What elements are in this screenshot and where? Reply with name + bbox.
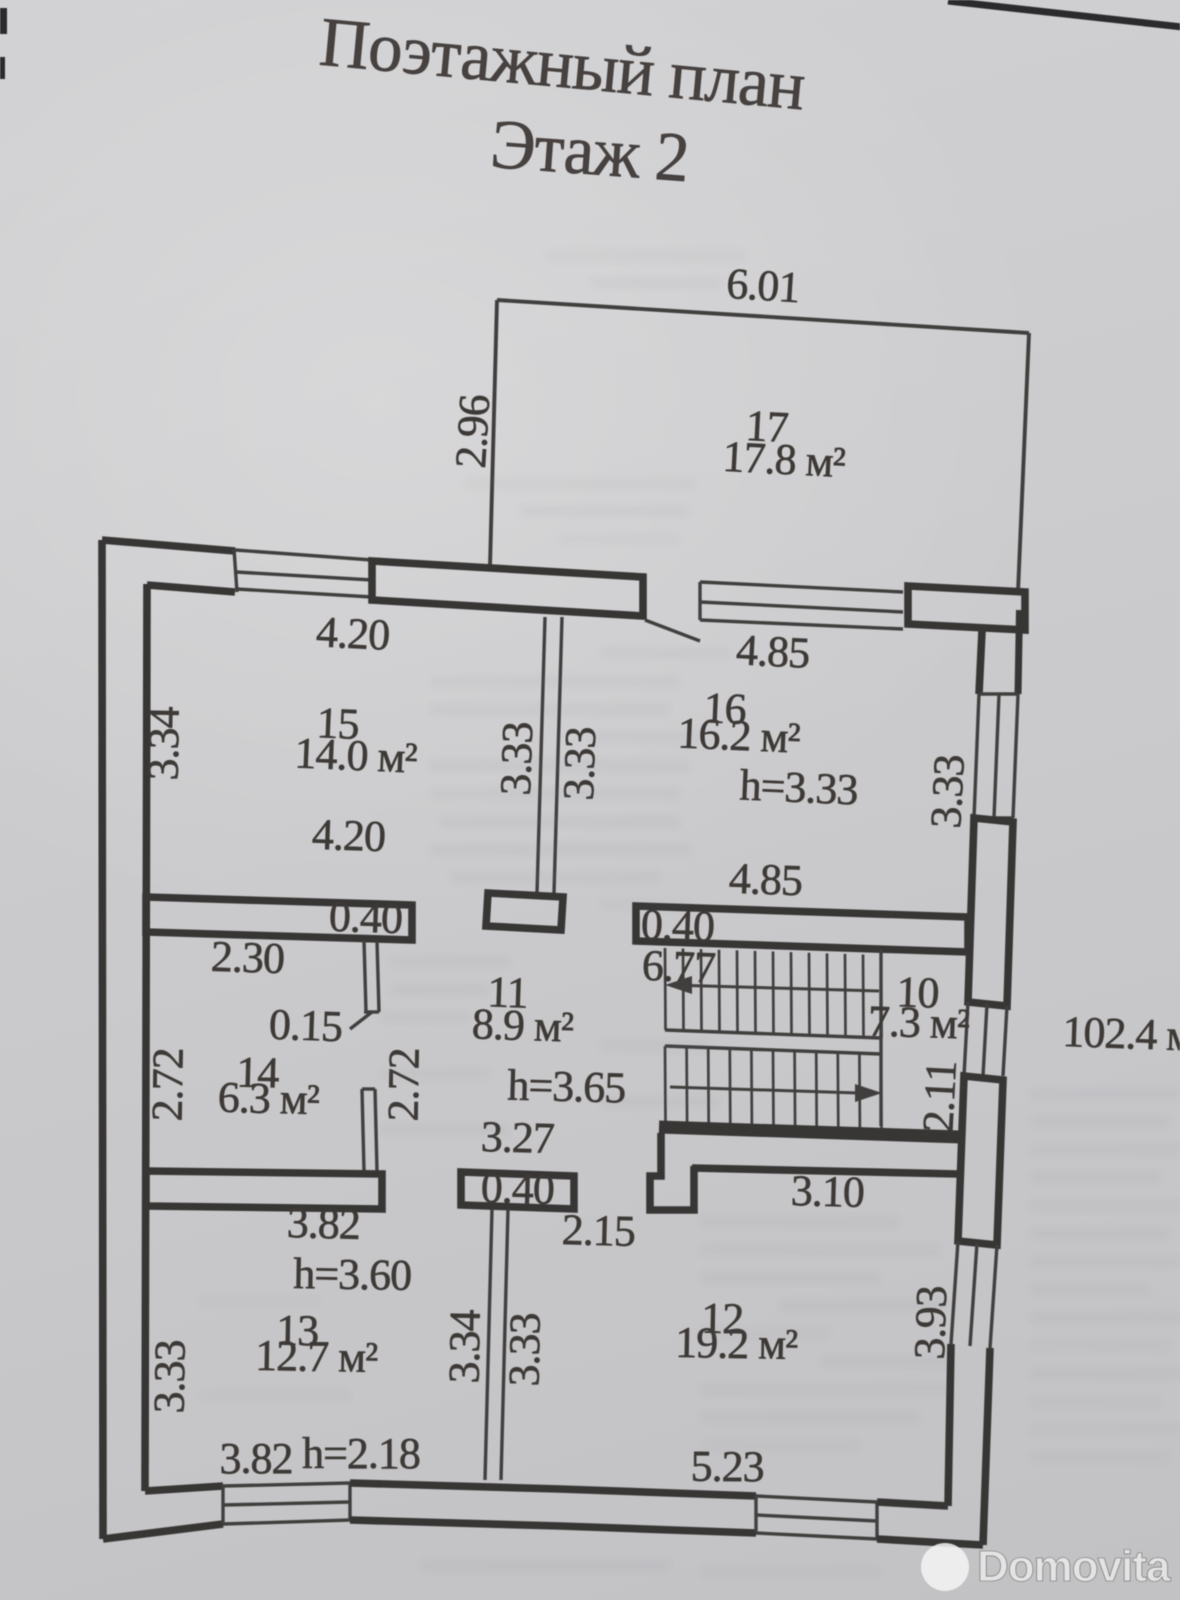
svg-text:2.15: 2.15 (561, 1205, 635, 1256)
stairs step notch (650, 1133, 694, 1210)
bottom wall outer mid (350, 1520, 756, 1533)
window D top line (756, 1496, 877, 1502)
window B top line (700, 582, 903, 592)
svg-text:3.34: 3.34 (439, 1309, 489, 1384)
svg-text:4.85: 4.85 (735, 625, 810, 678)
page edge speck left 2 (0, 57, 5, 79)
window A jamb left (234, 549, 237, 592)
svg-text:h=2.18: h=2.18 (302, 1429, 420, 1478)
left wall inner line (145, 584, 147, 1491)
stairs landing line (665, 1046, 881, 1054)
right wall inner top (979, 631, 982, 694)
window D bottom line (756, 1533, 877, 1539)
stairs lower treads (664, 1046, 667, 1124)
box 0.40 rooms13-12 (461, 1172, 574, 1209)
partition 13/12 left line (485, 1209, 492, 1480)
svg-text:3.27: 3.27 (480, 1112, 554, 1163)
svg-text:h=3.60: h=3.60 (293, 1249, 412, 1300)
svg-text:3.33: 3.33 (144, 1340, 194, 1414)
svg-text:3.33: 3.33 (499, 1313, 549, 1387)
svg-text:2.72: 2.72 (378, 1048, 428, 1122)
wall 0.40 room15 bottom (146, 897, 412, 940)
svg-text:2.72: 2.72 (142, 1048, 192, 1122)
partition 14/11 lower stub (362, 1089, 364, 1171)
room 12 top wall (692, 1168, 958, 1174)
svg-text:6.01: 6.01 (725, 259, 801, 312)
stairs upper flight bottom line (665, 1030, 881, 1038)
partition 15/16 right line (554, 617, 562, 893)
window C top line (223, 1483, 350, 1486)
stairs upper arrow line (670, 985, 879, 991)
stairs lower arrow head (855, 1084, 882, 1102)
window W1 cap bottom (974, 816, 1013, 819)
window A top line (235, 550, 372, 560)
right wall rect W2-W3 (958, 1076, 1003, 1245)
right wall outer bottom seg (983, 1348, 990, 1545)
svg-text:4.20: 4.20 (315, 607, 390, 660)
right wall corner vertical (1018, 610, 1020, 694)
stairs lower arrow line (670, 1087, 858, 1093)
window A bottom line (236, 589, 372, 597)
door swing top (645, 620, 700, 641)
svg-text:2.30: 2.30 (210, 932, 285, 984)
svg-text:14.0 м²: 14.0 м² (294, 728, 419, 782)
window D mid line (756, 1515, 877, 1521)
top wall rect room15 (372, 561, 643, 616)
window C jambs (221, 1486, 224, 1524)
svg-text:4.20: 4.20 (311, 810, 386, 862)
stairs upper treads (664, 948, 667, 1030)
svg-text:0.40: 0.40 (480, 1163, 554, 1214)
left wall outer line (102, 540, 103, 1539)
page edge speck left 1 (0, 8, 7, 34)
top wall outer stub left (102, 540, 235, 551)
page edge line top right (948, 1, 1180, 27)
window B mid line (700, 602, 903, 612)
window W3 outer line (990, 1245, 997, 1348)
svg-text:3.33: 3.33 (921, 754, 974, 829)
svg-text:6.3 м²: 6.3 м² (217, 1073, 320, 1125)
bottom wall inner mid (350, 1483, 756, 1496)
dim 0.15 tick (350, 1012, 372, 1029)
svg-text:7.3 м²: 7.3 м² (867, 996, 970, 1049)
stairs upper arrow head (665, 976, 692, 994)
stairs right edge line (879, 950, 882, 1126)
svg-text:3.10: 3.10 (790, 1166, 864, 1217)
window B bottom line (700, 620, 903, 629)
partition 15/16 stub rect (486, 893, 563, 930)
bottom wall inner right stub (877, 1502, 948, 1506)
svg-text:4.85: 4.85 (728, 854, 803, 906)
window W3 mid line (970, 1243, 977, 1346)
window A mid line (236, 572, 372, 580)
window W3 inner line (951, 1241, 958, 1344)
svg-text:19.2 м²: 19.2 м² (675, 1318, 799, 1369)
svg-text:3.82: 3.82 (286, 1198, 360, 1249)
divider 14/13 rect (146, 1171, 382, 1209)
top wall corner bar (908, 586, 1025, 630)
bottom wall inner left stub (145, 1486, 223, 1491)
bottom wall outer left stub (103, 1524, 223, 1539)
svg-text:Поэтажный план: Поэтажный план (317, 4, 808, 126)
right wall inner bottom seg (948, 1344, 951, 1506)
svg-text:h=3.33: h=3.33 (739, 760, 859, 814)
window W2 mid line (983, 1004, 987, 1076)
bleed-through text shadow (200, 250, 1180, 1577)
window W2 outer line (1003, 1006, 1007, 1076)
svg-text:0.15: 0.15 (268, 1000, 343, 1052)
window C mid line (223, 1502, 350, 1505)
partition 15/16 left line (537, 617, 545, 893)
watermark circle (921, 1543, 969, 1591)
window D jambs (754, 1496, 757, 1533)
svg-text:3.82: 3.82 (220, 1434, 293, 1483)
svg-text:12.7 м²: 12.7 м² (255, 1331, 379, 1382)
svg-text:0.40: 0.40 (328, 892, 403, 944)
top wall inner stub left (147, 585, 235, 592)
stairs bottom thick wall (659, 1127, 961, 1137)
svg-text:8.9 м²: 8.9 м² (471, 999, 574, 1052)
window W1 outer line (1013, 694, 1018, 818)
svg-text:Этаж 2: Этаж 2 (488, 106, 691, 197)
right wall rect W1-W2 (968, 818, 1013, 1006)
window W1 cap top (979, 692, 1018, 695)
svg-text:2.11: 2.11 (913, 1060, 966, 1134)
svg-text:3.34: 3.34 (138, 706, 188, 781)
window W1 mid line (994, 694, 999, 818)
window W1 inner line (974, 694, 979, 818)
partition 14/11 upper stub (364, 940, 366, 1012)
svg-text:17.8 м²: 17.8 м² (722, 432, 847, 487)
bottom wall outer right stub (877, 1539, 983, 1545)
terrace room 17 right edge (1018, 333, 1029, 592)
svg-text:Domovita: Domovita (977, 1542, 1171, 1591)
window B jamb left (698, 582, 701, 620)
window W2 inner line (964, 1002, 968, 1076)
partition 13/12 right line (501, 1209, 508, 1480)
svg-text:3.33: 3.33 (491, 722, 543, 797)
terrace room 17 top edge (497, 300, 1029, 333)
svg-text:6.77: 6.77 (641, 941, 716, 993)
stairs top wall 0.40 box (636, 906, 968, 952)
svg-text:102.4 м²: 102.4 м² (1062, 1007, 1180, 1061)
window C bottom line (223, 1520, 350, 1524)
terrace room 17 left edge (490, 300, 497, 566)
svg-text:2.96: 2.96 (446, 394, 499, 470)
